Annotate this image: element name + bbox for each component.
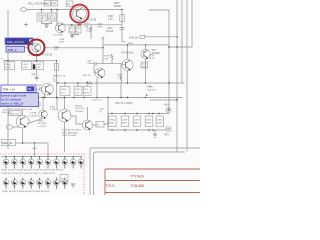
transistor TR414 bbox=[28, 178, 34, 189]
svg-text:KTC3198: KTC3198 bbox=[86, 19, 97, 22]
junction dot TR8a bbox=[42, 97, 43, 98]
ladder left vertical bbox=[107, 98, 109, 131]
svg-text:1.5K: 1.5K bbox=[118, 77, 123, 79]
svg-text:3A: 3A bbox=[67, 3, 70, 6]
junction dots array rail bbox=[5, 156, 73, 157]
transistor TR409 bbox=[70, 157, 76, 169]
svg-text:TTi Tech: TTi Tech bbox=[131, 173, 145, 178]
transistor TR410 bbox=[78, 157, 84, 169]
capacitor C+ polarity black mark bbox=[33, 64, 36, 69]
dashed pink vertical bbox=[83, 154, 85, 195]
svg-text:C302: C302 bbox=[87, 61, 93, 63]
svg-text:C304: C304 bbox=[59, 39, 65, 41]
annotation box TR8 measurement bbox=[1, 85, 36, 93]
wire TR9 emitter down bbox=[64, 122, 66, 152]
svg-text:OK: OK bbox=[28, 87, 32, 91]
resistor R303 on vertical bbox=[121, 10, 123, 42]
bus corner wire top right bbox=[149, 10, 169, 110]
resistor R306b box bbox=[33, 62, 44, 70]
svg-text:WC(2W): WC(2W) bbox=[38, 123, 47, 125]
wire TR2 collector up bbox=[103, 42, 169, 60]
title block divider 2 bbox=[105, 192, 200, 194]
svg-text:916M: 916M bbox=[157, 123, 162, 125]
bus wire y47 bbox=[169, 46, 192, 48]
ground G5 bars bbox=[153, 134, 157, 137]
svg-text:C302: C302 bbox=[22, 64, 28, 66]
svg-text:R304 7.6V: R304 7.6V bbox=[9, 113, 19, 115]
svg-text:C31B: C31B bbox=[99, 109, 105, 111]
svg-text:R305: R305 bbox=[36, 64, 42, 66]
svg-text:C3W2: C3W2 bbox=[109, 119, 116, 121]
transistor TR418 bbox=[62, 178, 68, 189]
connector J1 oval bbox=[20, 8, 27, 12]
bus vertical V4 bbox=[186, 0, 188, 152]
svg-text:R304: R304 bbox=[5, 64, 11, 66]
transistor TR415 bbox=[37, 178, 43, 189]
fuse F2 box bbox=[96, 122, 104, 128]
ground G6 array bbox=[71, 184, 75, 187]
svg-text:680/16: 680/16 bbox=[48, 19, 56, 21]
wire REG_B+ rail bbox=[16, 143, 49, 157]
connector ANA_B+ box bbox=[140, 35, 145, 38]
resistor R305 vertical bbox=[56, 61, 58, 98]
resistor R316 box bbox=[9, 111, 22, 116]
sheet inner border second vertical bbox=[93, 155, 95, 196]
annotation red circle B bbox=[28, 40, 44, 56]
annotation blue box TR6_b bbox=[6, 46, 25, 52]
svg-text:C3W2: C3W2 bbox=[122, 119, 129, 121]
junction dot TR9 bbox=[64, 97, 65, 98]
wire drop x34.5 bbox=[34, 143, 36, 157]
wire TR8 collector up bbox=[22, 109, 24, 115]
transistor TR405 bbox=[37, 157, 43, 169]
capacitor C302b marks bbox=[91, 62, 112, 66]
svg-text:8.2K: 8.2K bbox=[87, 31, 92, 33]
transistor TR402 bbox=[12, 157, 18, 169]
ground G2 bbox=[70, 35, 74, 38]
svg-text:TR407 2SC2073 TR408 2SC2073 TR: TR407 2SC2073 TR408 2SC2073 TR409 2SC207… bbox=[2, 191, 50, 193]
wire TR3 emitter to rail bbox=[44, 94, 46, 98]
wire boxes to ground bbox=[72, 33, 78, 35]
wire third rail bbox=[3, 60, 57, 62]
transistor TR412 bbox=[12, 178, 18, 189]
resistor R304 box bbox=[5, 62, 15, 70]
svg-text:TR10 470: TR10 470 bbox=[75, 108, 85, 110]
annotation red circle A bbox=[70, 5, 88, 23]
junction dots y83 bbox=[57, 82, 58, 83]
wire TR2 emitter down bbox=[127, 71, 129, 83]
capacitor CF05A box bbox=[37, 13, 46, 21]
array row2 transistors bbox=[3, 178, 68, 189]
ladder dots top bbox=[111, 113, 112, 114]
terminal SP minus bbox=[166, 126, 171, 131]
capacitor C3W1 box bbox=[109, 116, 117, 127]
resistor R310 box bbox=[74, 86, 82, 95]
wire TR8a to TR8 bbox=[27, 119, 43, 124]
svg-text:TR401 2SC2073 TR402 2SC2073 TR: TR401 2SC2073 TR402 2SC2073 TR403 2SC207… bbox=[1, 170, 64, 172]
svg-text:916M: 916M bbox=[146, 123, 151, 125]
svg-text:10/35: 10/35 bbox=[84, 92, 90, 94]
transistor TR2 bbox=[122, 59, 133, 70]
svg-text:103P: 103P bbox=[59, 42, 65, 44]
annotation comment box bbox=[0, 93, 39, 107]
svg-text:56/2W: 56/2W bbox=[114, 5, 122, 8]
resistor R314 zigzag bbox=[87, 82, 93, 84]
svg-text:2.2K: 2.2K bbox=[108, 19, 113, 21]
capacitor C3W4 box bbox=[156, 116, 164, 127]
wire TR6 emitter down bbox=[36, 52, 38, 61]
wire TR8a collector bbox=[42, 98, 44, 111]
svg-text:103P: 103P bbox=[142, 66, 147, 68]
svg-text:C306: C306 bbox=[97, 24, 103, 26]
ladder rail top bbox=[108, 113, 169, 115]
sheet left border bbox=[7, 10, 9, 149]
svg-text:10u/16: 10u/16 bbox=[106, 31, 114, 33]
array row1 transistors bbox=[3, 157, 84, 169]
wire P2 to TR8 bbox=[13, 126, 21, 128]
wire output box corner bbox=[150, 98, 177, 100]
svg-text:values on REG_B: values on REG_B bbox=[1, 102, 23, 106]
transistor TR406 bbox=[45, 157, 51, 169]
transistor TR8a bbox=[39, 110, 48, 119]
resistor R306 box bbox=[75, 26, 81, 33]
svg-text:R31 1K: R31 1K bbox=[83, 75, 91, 77]
transistor TR403 bbox=[20, 157, 26, 169]
transistor TR401 bbox=[3, 157, 9, 169]
wire TR8 emitter down bbox=[22, 128, 24, 143]
capacitor C401 box bbox=[60, 175, 68, 182]
capacitor C3W3 box bbox=[133, 116, 141, 127]
svg-text:103P: 103P bbox=[22, 67, 28, 69]
ladder dots bottom bbox=[111, 129, 112, 130]
svg-text:TR6_3=0.5V: TR6_3=0.5V bbox=[7, 40, 25, 44]
svg-text:C3W2: C3W2 bbox=[157, 119, 164, 121]
svg-text:4.7(2W): 4.7(2W) bbox=[38, 126, 46, 128]
transistor TR416 bbox=[45, 178, 51, 189]
junction dots y44.9 bbox=[127, 44, 128, 45]
svg-text:CF05A: CF05A bbox=[38, 14, 46, 17]
svg-text:C307: C307 bbox=[142, 64, 148, 66]
transistor TR3 bbox=[42, 83, 54, 95]
ladder rail bottom bbox=[108, 129, 166, 131]
svg-text:R315: R315 bbox=[50, 107, 56, 109]
svg-text:450P: 450P bbox=[38, 19, 44, 21]
capacitor C305 box bbox=[69, 26, 75, 33]
junction dot REG bbox=[22, 142, 23, 143]
svg-text:J7C: J7C bbox=[150, 55, 154, 57]
wire TR10 emitter right bbox=[93, 124, 97, 126]
svg-text:R311: R311 bbox=[128, 43, 134, 45]
title block outer border bbox=[105, 169, 200, 195]
bus vertical V2 bbox=[176, 0, 178, 152]
wire TR9 to TR10 bbox=[71, 116, 83, 124]
svg-text:4.7u: 4.7u bbox=[150, 58, 155, 60]
wire TR5 emitter down bbox=[79, 20, 81, 25]
svg-text:(TA7614AS): (TA7614AS) bbox=[121, 52, 134, 55]
wire TR1 base bbox=[94, 66, 98, 73]
ground G5 under ladder bbox=[154, 130, 156, 134]
transistor TR411 bbox=[3, 178, 9, 189]
sheet inner border second bbox=[94, 152, 186, 155]
svg-text:47K: 47K bbox=[54, 49, 58, 51]
svg-text:KTC9730: KTC9730 bbox=[42, 54, 53, 57]
svg-text:C307: C307 bbox=[107, 28, 113, 30]
wire array row2 base bars bbox=[4, 182, 64, 184]
svg-text:TITLE :: TITLE : bbox=[106, 184, 117, 188]
svg-text:4.7(D): 4.7(D) bbox=[50, 109, 56, 111]
svg-text:TR405 2S-C2073-TR | TR406-2S-C: TR405 2S-C2073-TR | TR406-2S-C2A5-TC | T… bbox=[1, 172, 56, 175]
wire stub Th bbox=[24, 23, 28, 27]
svg-text:KTC3198: KTC3198 bbox=[53, 35, 63, 37]
wire caps to ground bbox=[42, 21, 52, 25]
svg-text:R308: R308 bbox=[87, 28, 93, 30]
svg-text:100u/16: 100u/16 bbox=[148, 89, 157, 91]
title block divider 1 bbox=[105, 180, 200, 182]
svg-text:TR6_b: TR6_b bbox=[8, 48, 17, 52]
svg-text:J6(+): J6(+) bbox=[164, 105, 170, 107]
svg-text:REG_B+: REG_B+ bbox=[3, 141, 14, 145]
capacitor C3W2 box bbox=[121, 116, 129, 127]
wire base link bbox=[112, 64, 125, 65]
transistor TR6 in circle B bbox=[32, 43, 41, 52]
main rail y97.5 bbox=[8, 97, 182, 99]
svg-text:+C310 47u: +C310 47u bbox=[91, 100, 103, 102]
junction dots main rail bbox=[44, 97, 45, 98]
svg-text:C305: C305 bbox=[75, 89, 81, 91]
svg-text:916P: 916P bbox=[134, 123, 139, 125]
wire TR7 top bbox=[145, 45, 147, 49]
capacitor C3E1 box bbox=[145, 116, 153, 127]
capacitor C307a bbox=[120, 28, 125, 30]
svg-text:+C30: +C30 bbox=[146, 86, 152, 88]
transistor TR417 bbox=[54, 178, 60, 189]
wire stems to C305 R306 bbox=[72, 25, 78, 26]
capacitor C302 box bbox=[22, 62, 32, 70]
node B+ boxed label bbox=[45, 1, 51, 7]
svg-text:RCC_3=8.2V(B+): RCC_3=8.2V(B+) bbox=[28, 3, 47, 6]
transistor TR404 bbox=[28, 157, 34, 169]
svg-text:4.7(2W): 4.7(2W) bbox=[30, 115, 38, 117]
transistor TR8 bbox=[16, 115, 29, 128]
svg-text:C303: C303 bbox=[48, 15, 54, 17]
connector P2 oval bbox=[6, 125, 12, 129]
svg-text:R46.TC 1.4W(B): R46.TC 1.4W(B) bbox=[116, 103, 133, 105]
wire stems boxes y83 bbox=[65, 83, 87, 86]
dashed pink horizontal bbox=[0, 153, 84, 155]
svg-text:8.8K: 8.8K bbox=[36, 67, 41, 69]
capacitor C306 box bbox=[60, 86, 70, 95]
sheet inner border bottom left bbox=[90, 148, 200, 195]
transistor TR7 bbox=[141, 49, 150, 59]
junction dots on top rail bbox=[41, 9, 43, 11]
wire long rail y83 bbox=[57, 82, 185, 84]
svg-text:C3W2: C3W2 bbox=[134, 119, 141, 121]
wire TR4 collector bbox=[56, 10, 57, 27]
junction dot TR2 bbox=[127, 82, 128, 83]
svg-text:10K: 10K bbox=[105, 58, 109, 60]
svg-text:4.7/W: 4.7/W bbox=[5, 67, 12, 69]
transistor TR407 bbox=[54, 157, 60, 169]
wire array row1 base bars bbox=[4, 162, 81, 164]
junction dots second rail bbox=[71, 24, 72, 25]
wire to ground G3 bbox=[36, 70, 38, 78]
svg-text:C304 C302P R304+ 13uH: C304 C302P R304+ 13uH bbox=[8, 109, 33, 111]
svg-text:R307: R307 bbox=[85, 23, 91, 25]
svg-text:916P: 916P bbox=[122, 123, 127, 125]
svg-text:C304A: C304A bbox=[30, 112, 37, 115]
capacitor C311 box bbox=[83, 86, 91, 95]
svg-text:TCB-880: TCB-880 bbox=[130, 184, 144, 188]
svg-text:R304: R304 bbox=[54, 46, 60, 48]
transistor TR1 bbox=[95, 68, 105, 78]
junction dots bus bbox=[168, 46, 169, 47]
wire TR10 collector up bbox=[87, 107, 89, 120]
junction dots third rail bbox=[7, 60, 8, 61]
capacitor C303 box bbox=[48, 13, 57, 21]
svg-text:R309: R309 bbox=[105, 56, 111, 58]
wire TR1 emitter down bbox=[96, 78, 98, 98]
capacitor C318 marks bbox=[37, 87, 42, 91]
transistor TR5 in circle A bbox=[73, 7, 87, 21]
transistor TR408 bbox=[62, 157, 68, 169]
transistor TR4 bbox=[55, 23, 65, 33]
svg-text:TR7: TR7 bbox=[152, 50, 157, 52]
ground G1 bbox=[44, 25, 48, 28]
wire fuse to ladder bbox=[104, 114, 108, 125]
resistor R308 bbox=[90, 25, 92, 39]
bus vertical V5 bbox=[191, 0, 193, 47]
junction cross mark bbox=[33, 147, 37, 149]
svg-text:R902A: R902A bbox=[75, 104, 82, 107]
svg-text:C306: C306 bbox=[61, 89, 67, 91]
svg-text:R303: R303 bbox=[108, 16, 114, 18]
svg-text:(C): (C) bbox=[99, 111, 102, 113]
fuse T3A label bbox=[67, 1, 74, 7]
svg-text:R302: R302 bbox=[118, 74, 124, 76]
capacitor C307 box bbox=[141, 62, 148, 68]
wire stems CF05A C303 bbox=[42, 10, 52, 14]
wire second rail bbox=[62, 24, 122, 26]
svg-text:C318: C318 bbox=[36, 85, 42, 87]
svg-text:103P: 103P bbox=[97, 26, 103, 28]
node REG_B+ label box bbox=[2, 140, 16, 146]
array top rail bbox=[2, 156, 83, 158]
svg-text:KTD288: KTD288 bbox=[75, 111, 84, 113]
svg-text:GFA: GFA bbox=[31, 73, 36, 76]
wire TR9 collector up bbox=[64, 98, 66, 110]
wire ANA_B+ bbox=[145, 36, 177, 38]
svg-text:SP(-): SP(-) bbox=[164, 135, 170, 137]
svg-text:C3E1: C3E1 bbox=[146, 119, 152, 121]
junction dot TR7 rail bbox=[145, 82, 146, 83]
svg-text:APL 4R2: APL 4R2 bbox=[56, 97, 65, 100]
ground G3 bbox=[35, 77, 39, 80]
wire TR7 emitter down bbox=[145, 59, 147, 83]
transistor TR9 bbox=[58, 109, 71, 122]
wire TR6 base left bbox=[8, 47, 28, 49]
resistor R309 vertical bbox=[111, 54, 113, 64]
svg-text:916P: 916P bbox=[109, 123, 114, 125]
transistor TR413 bbox=[20, 178, 26, 189]
wire top rail B+ bbox=[27, 9, 122, 11]
svg-text:R308 4.7K: R308 4.7K bbox=[55, 76, 66, 78]
bus vertical V3 bbox=[181, 0, 183, 83]
annotation blue box TR6_3 bbox=[5, 38, 33, 45]
svg-text:4.7K: 4.7K bbox=[75, 92, 80, 94]
svg-text:R902: R902 bbox=[38, 120, 44, 122]
wire SP minus bbox=[165, 129, 168, 130]
svg-text:ANA_B+: ANA_B+ bbox=[129, 36, 139, 39]
wire to TR9 bbox=[57, 98, 58, 111]
svg-text:TR8 = 5V: TR8 = 5V bbox=[3, 87, 16, 91]
terminal SP plus bbox=[166, 107, 171, 112]
transistor TR10 bbox=[83, 120, 93, 130]
wire TR6 collector right bbox=[45, 37, 105, 64]
resistor R302 bbox=[120, 64, 122, 98]
